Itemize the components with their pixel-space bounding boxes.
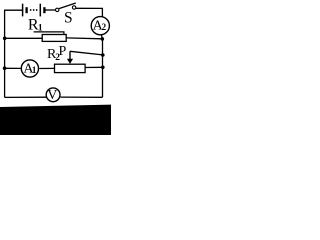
wire: A2 bottom to junction (100, 35, 103, 39)
battery B1 (23, 4, 45, 17)
wire: wiper to right wire (slanted) (70, 51, 103, 55)
wire: bottom left to V (5, 96, 47, 98)
battery short plate 2 (43, 7, 45, 13)
junction dot wiper right (101, 53, 105, 57)
wire: left to R1 (5, 37, 43, 39)
junction dot left A1 row (3, 66, 7, 70)
wire: left vertical (4, 10, 6, 97)
svg-text:1: 1 (32, 65, 37, 75)
svg-text:P: P (59, 44, 67, 59)
svg-text:S: S (64, 10, 73, 27)
background (0, 0, 111, 135)
battery dots (30, 9, 38, 11)
resistor R1 box (42, 35, 66, 42)
junction dot left R1 row (3, 37, 7, 41)
wire: A1 to R2 (39, 67, 54, 69)
wire: top left to battery (4, 9, 22, 11)
switch S (56, 3, 76, 12)
wire: right vertical (102, 39, 104, 97)
svg-text:V: V (47, 88, 57, 103)
wire: switch to top-right corner, down to A2 (76, 8, 103, 16)
wire: battery to switch (46, 9, 56, 11)
battery long plate 2 (39, 4, 41, 17)
leader line from R1 label to resistor (34, 32, 64, 35)
battery short plate 1 (25, 7, 27, 13)
wire: R2 right to right wire (85, 66, 103, 68)
black band at bottom (0, 105, 111, 135)
ammeter A1 (21, 60, 38, 77)
junction dot R2 right (101, 66, 105, 70)
battery long plate 1 (22, 4, 24, 17)
svg-text:2: 2 (102, 22, 107, 32)
rheostat wiper arrow P (69, 51, 71, 59)
wire: R1 to right junction (66, 37, 102, 40)
ammeter A2 (91, 17, 109, 35)
wire: V to bottom right corner (60, 96, 102, 98)
junction dot right R1 row (101, 37, 105, 41)
wire: left to A1 (5, 67, 21, 69)
voltmeter V (46, 88, 60, 102)
rheostat R2 box (55, 64, 86, 72)
